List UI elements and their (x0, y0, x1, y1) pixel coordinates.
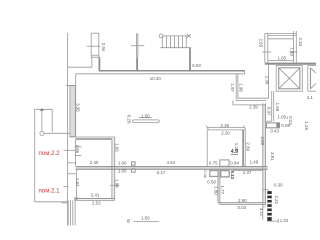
svg-text:2.40: 2.40 (90, 160, 99, 165)
svg-text:1.00: 1.00 (118, 169, 127, 174)
svg-text:1.87: 1.87 (75, 178, 80, 187)
room 2.2 left wall (75, 139, 77, 166)
svg-text:4.9: 4.9 (231, 149, 238, 155)
svg-text:2.39: 2.39 (245, 142, 250, 151)
main horizontal wall upper line (76, 166, 268, 168)
room 2.1 bottom wall (74, 198, 114, 200)
svg-text:1.00: 1.00 (118, 161, 127, 166)
top right room top wall (265, 33, 297, 35)
wire: thin wall line left (68, 66, 92, 68)
svg-text:3.00: 3.00 (260, 137, 265, 146)
svg-text:0.03: 0.03 (238, 205, 247, 210)
thick stub below pier (98, 57, 100, 70)
svg-text:8.43: 8.43 (230, 170, 235, 179)
svg-text:1.77: 1.77 (220, 186, 225, 195)
door jamb lower at 1.00 (132, 169, 136, 172)
dark hatched bar (267, 191, 271, 221)
dim line 2.36 (207, 126, 244, 128)
leader пом.2.1 (64, 185, 69, 187)
shaft 2 partial diagonals (311, 68, 317, 89)
top-left pier rectangle (91, 33, 99, 57)
lower vertical wall (217, 169, 219, 203)
elevator shaft 1 outer (276, 66, 302, 92)
svg-text:1.86: 1.86 (75, 145, 80, 154)
tick right of 1.00 (286, 117, 288, 120)
right vertical wall long (262, 103, 264, 220)
door rect below wall B (210, 171, 218, 177)
dimension tick 2.94 (87, 45, 101, 47)
riser line with arrow (41, 110, 43, 131)
tick on axis (131, 45, 144, 47)
tick left end (232, 100, 234, 105)
main top wall lower edge (76, 73, 245, 75)
shaft 1 X diagonals (279, 68, 300, 89)
svg-text:2.39: 2.39 (249, 105, 258, 110)
svg-text:1.94: 1.94 (114, 179, 119, 188)
stair wall down (189, 48, 191, 71)
balcony bottom line (35, 201, 68, 203)
svg-text:0.58: 0.58 (207, 179, 216, 184)
svg-text:в: в (127, 218, 130, 224)
tick near 0.30 (263, 189, 269, 191)
line below bar 1.02 (267, 220, 278, 222)
top wall end cap (244, 70, 246, 74)
rooms right wall (111, 139, 113, 199)
svg-text:3.81: 3.81 (270, 152, 275, 161)
dim ticks room 2.2 (75, 146, 82, 148)
svg-text:2.90: 2.90 (238, 198, 247, 203)
svg-text:2.22: 2.22 (274, 196, 279, 205)
svg-text:2.41: 2.41 (91, 193, 100, 198)
svg-text:4.1: 4.1 (307, 95, 314, 100)
wall left of shaft (268, 65, 270, 98)
shaft 2 top/bottom (308, 65, 316, 67)
svg-text:2.33: 2.33 (298, 38, 303, 47)
svg-text:1.50: 1.50 (141, 114, 150, 119)
tick below room (62, 202, 68, 204)
svg-text:1.97: 1.97 (230, 83, 235, 92)
svg-text:1.66: 1.66 (115, 143, 120, 152)
svg-text:0.43: 0.43 (270, 129, 279, 134)
vertical x=266.6 down (265, 105, 267, 121)
svg-text:4.64: 4.64 (167, 160, 176, 165)
riser arrowhead (40, 108, 44, 110)
svg-text:1.00: 1.00 (278, 114, 287, 119)
stairs start circle (159, 34, 163, 38)
top right room right wall (293, 31, 295, 63)
middle room right wall (242, 130, 244, 166)
svg-text:0.84: 0.84 (230, 161, 239, 166)
balcony left side (34, 109, 36, 202)
connector at window top (266, 120, 272, 122)
top right thick wall (265, 63, 316, 65)
inner sill line (268, 38, 294, 40)
svg-text:1.80: 1.80 (214, 186, 219, 195)
svg-text:2.55: 2.55 (258, 39, 263, 48)
svg-text:2.37: 2.37 (243, 170, 252, 175)
wire to wall (44, 132, 70, 134)
door rect above wall (220, 160, 229, 166)
svg-text:0.36: 0.36 (203, 170, 207, 177)
tick at hatched wall top (66, 85, 75, 87)
tick right (290, 51, 298, 53)
svg-text:0.28: 0.28 (126, 115, 131, 124)
shaft 2 left wall (307, 66, 309, 92)
svg-text:пом.2.2: пом.2.2 (39, 150, 61, 157)
tick below shared wall (68, 173, 76, 175)
room 2.2 top wall (70, 136, 115, 138)
lower horizontal wall (218, 201, 266, 203)
svg-text:0.97: 0.97 (267, 107, 272, 116)
dim line 1.65 (268, 60, 294, 62)
svg-text:2.20: 2.20 (221, 131, 230, 136)
middle room top wall (207, 129, 245, 131)
riser circle (40, 132, 44, 136)
left vertical axis line (67, 33, 69, 225)
svg-text:2.36: 2.36 (264, 76, 269, 85)
below-wall pipe lines (68, 200, 75, 225)
svg-text:2.36: 2.36 (221, 123, 230, 128)
svg-text:1.89: 1.89 (289, 47, 294, 56)
main horizontal wall lower line (76, 168, 268, 170)
main top wall upper edge (99, 70, 245, 72)
svg-text:6.53: 6.53 (192, 63, 201, 68)
elevator shaft 1 inner (279, 68, 300, 89)
hatch white dashes (267, 195, 271, 217)
svg-text:0.30: 0.30 (274, 183, 283, 188)
stairs end X mark (187, 34, 191, 37)
svg-text:10.30: 10.30 (150, 76, 162, 81)
svg-text:0.75: 0.75 (209, 161, 218, 166)
left hatched wall (70, 85, 75, 136)
balcony right side (51, 109, 53, 132)
svg-text:1.02: 1.02 (280, 218, 289, 223)
leader пом.2.2 (64, 149, 76, 151)
svg-text:1.65: 1.65 (278, 56, 287, 61)
svg-text:2.53: 2.53 (92, 200, 101, 205)
thin line y=105 (233, 104, 266, 106)
room 2.1 left wall (75, 170, 77, 199)
svg-text:0.08: 0.08 (281, 123, 290, 128)
svg-text:6.17: 6.17 (157, 170, 166, 175)
dim line 2.37 right (234, 169, 263, 171)
stairs bottom line (160, 47, 191, 49)
tick above shared wall (68, 162, 76, 164)
middle room left wall (206, 130, 208, 166)
svg-text:1.49: 1.49 (250, 160, 259, 165)
door rect below wall C (221, 171, 230, 177)
wall corner horizontal double (238, 97, 269, 99)
svg-text:2.94: 2.94 (101, 43, 106, 52)
window dark cap (276, 123, 279, 127)
svg-text:1.28: 1.28 (304, 121, 309, 130)
stairs top rail (163, 35, 189, 37)
tick 1.02 (277, 219, 279, 223)
wall stub below axis (136, 58, 138, 71)
door jamb upper at 1.00 (132, 162, 136, 165)
wall fills (76, 137, 268, 200)
top right room left wall (264, 34, 266, 63)
svg-text:3.11: 3.11 (259, 208, 264, 217)
window assembly bottom (266, 123, 279, 128)
legend bar top (133, 120, 160, 123)
axis line x=137 top (135, 33, 137, 57)
svg-text:пом.2.1: пом.2.1 (39, 187, 61, 194)
stair treads (162, 36, 186, 48)
left balcony outline top (35, 108, 53, 110)
stub below shaft (271, 91, 273, 121)
svg-text:3.95: 3.95 (76, 103, 81, 112)
wire: pier left edge down (91, 57, 93, 67)
svg-text:1.68: 1.68 (275, 103, 280, 112)
pier inner line (91, 54, 99, 56)
dim tick room 2.1 right (110, 184, 120, 186)
legend line bottom (133, 221, 159, 223)
tick left (262, 51, 271, 53)
wall inner face left corner down (75, 74, 77, 137)
legend line top (139, 117, 152, 119)
upper-right vertical wall double (235, 74, 237, 100)
svg-text:1.50: 1.50 (141, 216, 150, 221)
svg-text:1.98: 1.98 (239, 83, 244, 92)
stub right of pipe wall (74, 197, 77, 199)
